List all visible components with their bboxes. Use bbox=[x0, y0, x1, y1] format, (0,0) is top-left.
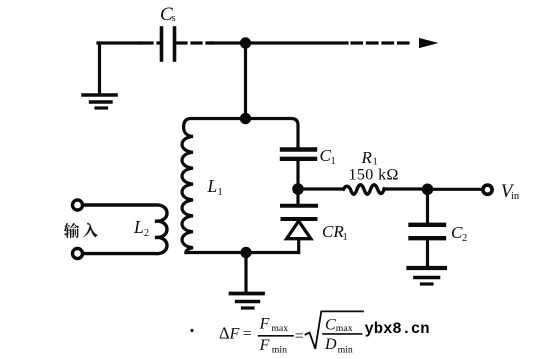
wire (C2 to ground) bbox=[426, 238, 429, 266]
node (C1/CR1/R1 junction) bbox=[292, 183, 304, 195]
wire (dashed after Cs) bbox=[177, 41, 212, 44]
inductor L1 bbox=[182, 119, 245, 253]
capacitor C1 bbox=[282, 150, 315, 159]
wire (R1 to output node) bbox=[384, 187, 428, 190]
svg-text:L: L bbox=[133, 217, 144, 237]
svg-text:Δ: Δ bbox=[219, 323, 230, 342]
svg-text:L: L bbox=[207, 176, 218, 196]
varactor diode CR1 bbox=[282, 206, 316, 239]
capacitor Cs bbox=[162, 28, 175, 60]
wire (tank bottom bus) bbox=[186, 251, 298, 254]
wire (bottom junction to ground) bbox=[244, 253, 247, 292]
svg-text:min: min bbox=[272, 344, 287, 355]
label Vin bbox=[501, 181, 520, 202]
wire (CR1 to bottom bus) bbox=[297, 239, 300, 253]
ground (top-left) bbox=[83, 43, 116, 108]
inductor L2 bbox=[84, 205, 168, 254]
svg-text:2: 2 bbox=[462, 233, 467, 244]
label L2 bbox=[133, 217, 149, 239]
svg-text:=: = bbox=[243, 326, 252, 343]
node (output junction) bbox=[422, 184, 434, 196]
terminal (input bottom) bbox=[73, 249, 83, 259]
node (bottom junction) bbox=[240, 247, 251, 258]
svg-text:F: F bbox=[259, 337, 270, 354]
resistor R1 bbox=[344, 185, 385, 195]
watermark ybx8.cn bbox=[365, 320, 430, 338]
wire (node to R1) bbox=[298, 187, 344, 190]
wire (solid to junction and beyond) bbox=[211, 41, 347, 44]
svg-text:=: = bbox=[295, 328, 304, 345]
wire (output node down to C2) bbox=[426, 189, 429, 222]
svg-text:C: C bbox=[325, 316, 336, 333]
wire (to output terminal) bbox=[428, 188, 481, 191]
formula dot bbox=[190, 329, 193, 332]
node (tank top junction) bbox=[240, 113, 251, 124]
wire (dashed to arrow) bbox=[352, 41, 413, 44]
capacitor C2 bbox=[411, 225, 445, 238]
node (top junction) bbox=[240, 37, 251, 48]
label L1 bbox=[207, 176, 223, 198]
svg-text:2: 2 bbox=[144, 228, 149, 239]
svg-text:ybx8.cn: ybx8.cn bbox=[365, 320, 430, 338]
svg-text:max: max bbox=[271, 323, 288, 334]
terminal (input top) bbox=[73, 200, 83, 210]
svg-text:150 kΩ: 150 kΩ bbox=[349, 167, 399, 184]
wire (dashed into Cs) bbox=[142, 41, 159, 44]
formula delta-F bbox=[219, 316, 353, 356]
wire (top-left horizontal, solid) bbox=[98, 41, 140, 44]
wire (node down to CR1) bbox=[296, 189, 299, 204]
svg-text:CR: CR bbox=[322, 222, 344, 241]
wire (C1 to node) bbox=[296, 161, 299, 186]
wire (top junction down to tank) bbox=[244, 43, 247, 119]
svg-text:D: D bbox=[324, 336, 337, 353]
svg-text:R: R bbox=[361, 148, 373, 167]
arrowhead (output arrow) bbox=[419, 38, 439, 48]
wire (tank top bus right to C1 branch) bbox=[246, 119, 299, 148]
svg-text:F: F bbox=[229, 325, 240, 342]
formula fraction bars bbox=[259, 335, 294, 337]
svg-text:1: 1 bbox=[343, 232, 348, 243]
svg-text:1: 1 bbox=[331, 156, 336, 167]
label CR1 bbox=[322, 222, 348, 243]
svg-text:F: F bbox=[259, 316, 270, 333]
label C2 bbox=[451, 223, 467, 244]
formula radical bbox=[306, 311, 364, 348]
svg-text:1: 1 bbox=[218, 187, 223, 198]
label Cs bbox=[160, 4, 176, 25]
svg-text:s: s bbox=[172, 13, 176, 24]
ground (bottom) bbox=[231, 294, 264, 309]
label R1 bbox=[349, 148, 399, 184]
svg-text:max: max bbox=[336, 323, 353, 334]
svg-text:in: in bbox=[511, 191, 520, 202]
label 输入 bbox=[64, 223, 98, 238]
label C1 bbox=[320, 146, 336, 167]
svg-text:min: min bbox=[338, 344, 353, 355]
ground (C2) bbox=[409, 268, 446, 284]
terminal Vin bbox=[483, 185, 492, 194]
